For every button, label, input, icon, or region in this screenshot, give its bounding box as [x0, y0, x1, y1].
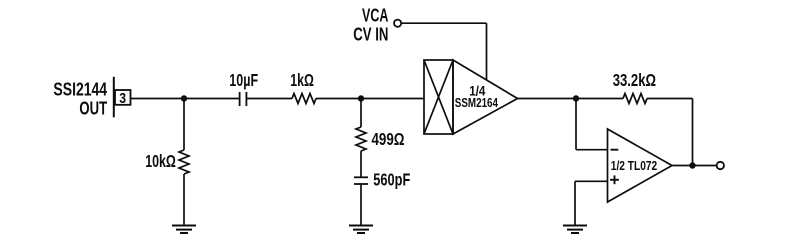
- label 499: [372, 129, 405, 149]
- svg-text:SSM2164: SSM2164: [455, 95, 499, 110]
- label 1k: [290, 70, 314, 90]
- node A junction: [181, 95, 187, 101]
- wire: node A to capacitor 10uF: [184, 98, 239, 100]
- node B junction: [358, 95, 364, 101]
- wire: feedback corner down to output node: [692, 99, 694, 167]
- pin 3 box: [115, 90, 131, 107]
- wire: resistor 499 to capacitor 560pF: [360, 151, 362, 177]
- terminal: output: [717, 162, 724, 169]
- ground (middle): [349, 226, 373, 234]
- node C junction: [573, 95, 579, 101]
- wire: node A down to resistor 10k: [183, 99, 185, 151]
- label SSI2144 OUT: [53, 79, 107, 119]
- svg-text:CV IN: CV IN: [353, 24, 388, 45]
- capacitor 560pF: [354, 177, 368, 184]
- wire: node C down to op-amp inverting input: [575, 99, 577, 150]
- wire: resistor 1k to node B: [316, 98, 361, 100]
- resistor 33.2k: [623, 94, 647, 104]
- svg-text:1kΩ: 1kΩ: [290, 70, 314, 90]
- wire: op-amp non-inverting input stub: [575, 180, 608, 182]
- capacitor 10uF: [240, 92, 247, 106]
- label 10k: [145, 151, 176, 171]
- label 560pF: [373, 169, 410, 189]
- ground (right): [563, 226, 587, 234]
- wire: node B down to resistor 499: [360, 99, 362, 128]
- wire: capacitor 560pF to ground: [360, 184, 362, 226]
- label VCA CV IN: [353, 5, 388, 45]
- wire: resistor 10k to ground: [183, 174, 185, 226]
- wire: op-amp output to terminal: [672, 165, 717, 167]
- svg-text:SSI2144: SSI2144: [53, 79, 107, 100]
- resistor 499: [356, 127, 366, 151]
- svg-text:10kΩ: 10kΩ: [145, 151, 176, 171]
- svg-text:3: 3: [119, 90, 126, 107]
- wire: VCA output to node C: [518, 98, 577, 100]
- VCA U1 1/4 SSM2164: [424, 60, 518, 134]
- terminal: VCA CV IN input: [394, 20, 401, 27]
- svg-text:10µF: 10µF: [229, 70, 258, 90]
- output node junction: [689, 162, 695, 168]
- wire: pin 3 to node A: [131, 98, 185, 100]
- resistor 1k: [292, 94, 316, 104]
- wire: node B to VCA input: [361, 98, 424, 100]
- op-amp U2 1/2 TL072: [608, 129, 673, 202]
- wire: inverting input into op-amp: [576, 149, 608, 151]
- svg-text:VCA: VCA: [362, 5, 388, 26]
- svg-text:499Ω: 499Ω: [372, 129, 405, 149]
- wire: node C to resistor 33.2k: [576, 98, 623, 100]
- resistor 10k: [179, 150, 189, 174]
- wire: CV terminal to corner: [401, 22, 486, 24]
- svg-text:1/2 TL072: 1/2 TL072: [611, 158, 657, 173]
- svg-text:560pF: 560pF: [373, 169, 410, 189]
- wire: corner down to VCA control port: [486, 23, 488, 80]
- SSI2144 package edge: [113, 77, 115, 118]
- wire: capacitor 10uF to resistor 1k: [247, 98, 292, 100]
- wire: resistor 33.2k to feedback corner: [647, 98, 693, 100]
- wire: non-inverting input down to ground: [574, 181, 576, 225]
- svg-text:33.2kΩ: 33.2kΩ: [613, 70, 656, 90]
- label 10uF: [229, 70, 258, 90]
- ground (left): [172, 226, 196, 234]
- svg-text:OUT: OUT: [79, 98, 107, 119]
- label 33.2k: [613, 70, 656, 90]
